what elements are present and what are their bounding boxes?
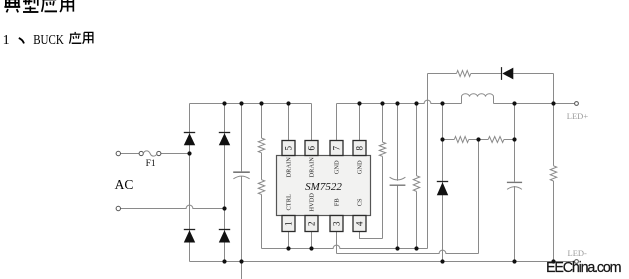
svg-text:8: 8 — [355, 146, 365, 151]
pin box 8 (top) — [353, 141, 366, 156]
wire: C1 vertical upper — [241, 104, 243, 172]
junction bottom bus / D6 branch — [440, 259, 444, 263]
svg-text:DRAIN: DRAIN — [308, 157, 315, 178]
svg-text:AC: AC — [115, 177, 134, 192]
svg-text:F1: F1 — [146, 159, 156, 169]
wire: R4 vertical upper — [416, 104, 418, 176]
wire: AC upper terminal to fuse — [121, 153, 140, 155]
junction top bus / C1 — [239, 101, 243, 105]
terminal LED- — [575, 260, 579, 264]
junction AC lower / right branch — [222, 206, 226, 210]
junction rail / pin1 — [286, 246, 290, 250]
wire: divider line right — [504, 139, 515, 141]
junction bottom bus / C1 — [239, 259, 243, 263]
junction top bus / C3 branch — [512, 101, 516, 105]
wire: pin6 drop from top bus — [311, 104, 313, 141]
pin box 7 (top) — [330, 141, 343, 156]
wire: R8 vertical lower — [553, 181, 555, 262]
svg-text:LED+: LED+ — [567, 111, 589, 121]
diode D4 (bridge bottom-right) — [219, 229, 230, 231]
svg-text:GND: GND — [333, 160, 340, 174]
resistor R7 (divider lower) — [488, 137, 504, 143]
svg-text:BUCK: BUCK — [33, 32, 64, 47]
wire: pin2 to rail — [311, 232, 313, 249]
capacitor C2 (VDD, curved top) — [390, 177, 406, 180]
resistor R8 (dummy load) — [550, 166, 556, 181]
wire: pin8 drop from top bus — [359, 104, 361, 141]
junction bottom bus / C3 — [512, 259, 516, 263]
svg-text:SM7522: SM7522 — [305, 181, 342, 193]
wire: R3 vertical lower — [382, 156, 384, 238]
wire: top bus (rectified +) — [190, 103, 312, 105]
wire: FB sense vertical to divider tap — [478, 140, 480, 254]
wire: R8 vertical upper — [553, 74, 555, 166]
pin box 2 (bottom) — [305, 216, 318, 232]
svg-text:1: 1 — [284, 222, 294, 227]
junction divider tap / FB — [476, 137, 480, 141]
resistor R6 (divider upper) — [454, 137, 468, 143]
svg-text:7: 7 — [332, 146, 342, 151]
svg-text:DRAIN: DRAIN — [285, 157, 292, 178]
svg-text:1: 1 — [3, 33, 10, 48]
wire: freewheel line middle — [471, 73, 502, 75]
wire: pin7 drop from top bus — [336, 104, 338, 141]
wire: AC lower to right bridge branch (hops left branch) — [121, 205, 225, 208]
wire: freewheel left leg vertical — [427, 74, 429, 249]
pin box 3 (bottom) — [330, 216, 343, 232]
svg-text:CS: CS — [356, 198, 363, 206]
junction bottom bus / R8 — [551, 259, 555, 263]
svg-text:LED-: LED- — [568, 248, 588, 258]
svg-text:3: 3 — [332, 221, 342, 226]
resistor R1 (startup upper) — [258, 138, 264, 153]
wire: VDD rail (hops pin3 wire) — [262, 245, 428, 248]
svg-text:HVDD: HVDD — [308, 193, 315, 212]
diode D2 (bridge top-right) — [219, 132, 230, 134]
AC terminal upper — [116, 151, 120, 155]
diode D1 (bridge top-left) — [184, 132, 195, 134]
wire: pin1 to rail — [288, 232, 290, 249]
junction top bus / pin8 — [357, 101, 361, 105]
wire: C2 vertical lower — [397, 185, 399, 248]
wire: FB line (hops D6 branch) — [337, 250, 479, 253]
fuse F1 — [139, 151, 143, 155]
resistor R5 (freewheel damp) — [457, 71, 471, 77]
wire: freewheel top line left — [428, 73, 457, 75]
svg-text:5: 5 — [284, 146, 294, 151]
svg-text:4: 4 — [355, 221, 365, 226]
junction bottom bus / right branch — [222, 259, 226, 263]
wire: startup chain vertical segments — [261, 104, 263, 139]
pin box 5 (top) — [282, 141, 295, 156]
svg-text:6: 6 — [307, 146, 317, 151]
junction top bus / R8 branch — [551, 101, 555, 105]
wire: D6 branch vertical — [442, 104, 444, 262]
wire: C1 vertical lower — [241, 176, 243, 261]
pin box 4 (bottom) — [353, 216, 366, 232]
wire: top bus after inductor to LED+ — [494, 103, 575, 105]
junction top bus / startup chain — [259, 101, 263, 105]
svg-text:2: 2 — [307, 222, 317, 227]
wire: C2 vertical upper — [397, 104, 399, 181]
op-amp U1 SM7522 body — [277, 156, 371, 216]
wire: R3 vertical upper — [382, 104, 384, 143]
title 典型应用 (bold, clipped at top) — [4, 0, 20, 12]
inductor L1 — [462, 94, 494, 104]
junction divider / C3 branch — [512, 137, 516, 141]
junction rail / pin2 — [309, 246, 313, 250]
diode D3 (bridge bottom-left) — [184, 229, 195, 231]
terminal LED+ — [575, 102, 579, 106]
junction top bus / D6 branch — [440, 101, 444, 105]
pin box 6 (top) — [305, 141, 318, 156]
pin box 1 (bottom) — [282, 216, 295, 232]
wire: top bus right segment (hops freewheel leg) — [337, 100, 462, 103]
junction top bus / R3 — [380, 101, 384, 105]
wire: R4 vertical lower — [416, 191, 418, 248]
diode D5 (freewheel) — [501, 67, 503, 80]
wire: pin3 (FB) drop — [336, 232, 338, 254]
svg-text:FB: FB — [333, 198, 340, 206]
wire: stub below bottom bus — [241, 262, 243, 279]
junction rail / C2 — [395, 246, 399, 250]
junction rail / R4 — [414, 246, 418, 250]
capacitor C1 (bulk, polarized) — [233, 171, 250, 173]
diode D6 — [437, 181, 448, 183]
resistor R4 (VDD) — [413, 176, 419, 192]
junction top bus / C2 — [395, 101, 399, 105]
AC terminal lower — [116, 206, 120, 210]
svg-text:CTRL: CTRL — [285, 194, 292, 210]
junction top bus / R4 — [414, 101, 418, 105]
svg-text:EEChina.com: EEChina.com — [546, 260, 622, 276]
wire: fuse to left bridge branch — [161, 153, 190, 155]
wire: left bridge branch vertical — [189, 104, 191, 262]
wire: C3 vertical upper — [514, 104, 516, 182]
wire: divider line left — [443, 139, 455, 141]
junction fuse wire / left branch — [187, 151, 191, 155]
junction top bus / right branch — [222, 101, 226, 105]
wire: pin5 drop from top bus — [288, 104, 290, 141]
wire: pin4 jog — [360, 232, 383, 239]
resistor R3 (CS sense) — [379, 142, 385, 156]
svg-text:GND: GND — [356, 160, 363, 174]
wire: bottom bus (ground return) — [190, 261, 575, 263]
wire: divider line middle — [469, 139, 489, 141]
wire: C3 vertical lower — [514, 186, 516, 262]
junction divider / D6 branch — [440, 137, 444, 141]
capacitor C3 (output, polarized) — [507, 181, 522, 183]
wire: right bridge branch vertical — [224, 104, 226, 262]
junction top bus / pin5 — [286, 101, 290, 105]
resistor R2 (startup lower) — [258, 180, 264, 195]
wire: freewheel line right — [513, 73, 553, 75]
